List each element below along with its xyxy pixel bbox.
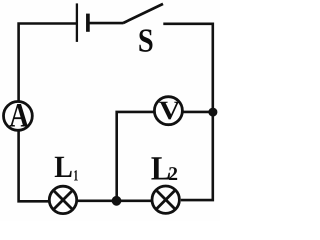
battery cell: long positive plate xyxy=(76,3,78,42)
svg-text:A: A xyxy=(9,98,29,135)
wire: voltmeter right to right-side junction xyxy=(183,111,212,114)
wire: battery negative plate to switch pivot xyxy=(88,22,124,25)
lamp L1 circle xyxy=(49,186,76,213)
wire: left side, ammeter top up to top-left corner, right to battery xyxy=(19,24,76,102)
svg-text:L: L xyxy=(54,149,73,184)
switch S blade xyxy=(123,4,163,23)
svg-text:S: S xyxy=(138,22,154,59)
svg-text:2: 2 xyxy=(168,164,178,185)
svg-text:1: 1 xyxy=(73,167,78,184)
voltmeter circle xyxy=(154,97,182,125)
wire: between lamps L1 and L2 xyxy=(78,200,152,203)
lamp L2 cross xyxy=(156,190,175,209)
ammeter circle xyxy=(4,102,33,131)
wire: left side, ammeter bottom to bottom-left corner, right to lamp L1 xyxy=(19,132,49,202)
wire: voltmeter branch left + middle vertical down to junction xyxy=(117,112,154,201)
svg-text:V: V xyxy=(159,96,181,125)
battery cell: short negative plate xyxy=(86,14,90,32)
lamp L2 circle xyxy=(152,186,179,213)
junction node between L1 and L2 xyxy=(112,196,122,206)
junction node on right wire at voltmeter branch xyxy=(208,108,217,117)
wire: switch right contact, top-right corner, right side down to lamp L2 xyxy=(163,24,213,200)
lamp L1 cross xyxy=(54,191,73,210)
